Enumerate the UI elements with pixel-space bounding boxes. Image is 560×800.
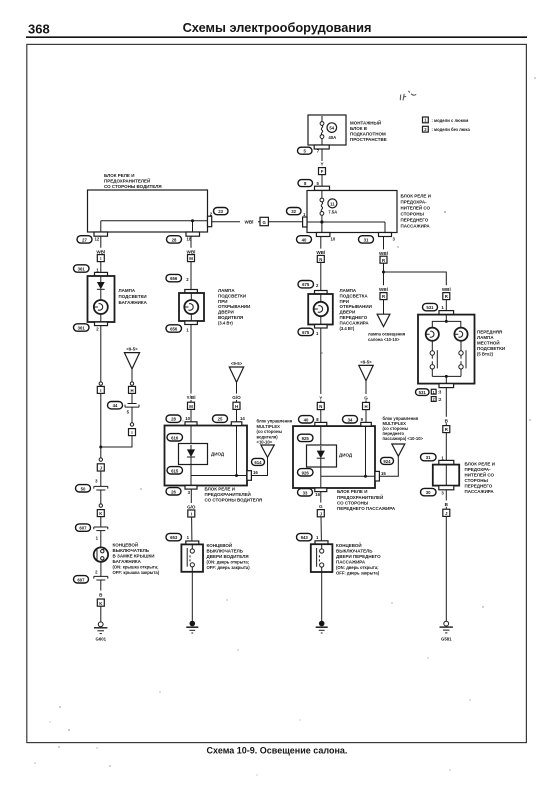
- svg-text:ПРЕДОХРАНИТЕЛЕЙ: ПРЕДОХРАНИТЕЛЕЙ: [104, 176, 150, 183]
- internal wire: [190, 426, 192, 446]
- label: driver relay box (bottom): [205, 486, 263, 502]
- wire: [190, 325, 192, 403]
- svg-text:ПОДСВЕТКИ: ПОДСВЕТКИ: [477, 346, 505, 351]
- label: passenger relay box right: [465, 461, 495, 494]
- wire: [100, 262, 102, 276]
- svg-text:40: 40: [302, 237, 307, 242]
- svg-text:WBl: WBl: [379, 287, 388, 292]
- wire from pin 3: [383, 237, 385, 257]
- svg-text:614: 614: [254, 460, 262, 465]
- svg-text:653: 653: [170, 535, 178, 540]
- wire to multiplex passenger: [379, 456, 398, 476]
- svg-text:ПАССАЖИРА: ПАССАЖИРА: [340, 320, 370, 325]
- svg-text:<9-5>: <9-5>: [126, 347, 138, 352]
- diode D2 box: [307, 445, 337, 467]
- header rule: [26, 36, 527, 38]
- svg-text:ЛАМПА: ЛАМПА: [340, 288, 357, 293]
- wire label G: [361, 394, 371, 401]
- wire: [100, 326, 102, 382]
- internal bus: [101, 220, 208, 222]
- svg-text:ЛАМПА: ЛАМПА: [218, 288, 235, 293]
- connector oval 32: [287, 208, 302, 215]
- junction node: [99, 446, 102, 449]
- connector oval 34 pin 9: [343, 416, 364, 423]
- connector tab pin 7: [314, 145, 329, 154]
- svg-text:925: 925: [302, 436, 310, 441]
- top tab pin 9: [361, 422, 372, 426]
- svg-text:ДИОД: ДИОД: [339, 452, 353, 457]
- lamp bulb trunk: [94, 300, 108, 322]
- diode D2: [317, 446, 325, 467]
- svg-text:НИТЕЛЕЙ СО: НИТЕЛЕЙ СО: [465, 470, 495, 477]
- svg-text:(ON: дверь открыта;: (ON: дверь открыта;: [336, 565, 379, 570]
- svg-text:16: 16: [315, 492, 320, 497]
- wire code box R: [380, 256, 387, 263]
- internal bottom bus: [432, 375, 461, 384]
- svg-text:СТОРОНЫ: СТОРОНЫ: [401, 212, 425, 217]
- svg-text:(3.4 Вт): (3.4 Вт): [218, 320, 233, 325]
- splice o: [99, 458, 102, 461]
- wire: [320, 410, 322, 423]
- svg-text:СТОРОНЫ: СТОРОНЫ: [465, 478, 489, 483]
- svg-text:943: 943: [301, 535, 309, 540]
- diode D1 box: [179, 444, 208, 465]
- trunk lid switch: [94, 547, 108, 561]
- svg-text:WBl: WBl: [245, 220, 254, 225]
- label: passenger courtesy lamp: [340, 288, 372, 331]
- svg-text:368: 368: [28, 22, 50, 37]
- wire code box M: [188, 402, 195, 409]
- svg-text:675: 675: [302, 282, 310, 287]
- label: trunk lamp: [119, 288, 148, 305]
- svg-text:25: 25: [218, 417, 223, 422]
- svg-text:12: 12: [95, 237, 100, 242]
- wire: [100, 471, 102, 486]
- off-page arrow multiplex passenger: [392, 444, 405, 456]
- right tab pin 16: [247, 470, 258, 480]
- svg-text:: модели с люком: : модели с люком: [432, 118, 469, 123]
- wire label WBl: [92, 248, 110, 255]
- svg-text:<9-5>: <9-5>: [231, 361, 243, 366]
- svg-text:10: 10: [185, 416, 190, 421]
- svg-text:Y/Bl: Y/Bl: [187, 395, 196, 400]
- connector oval 23: [214, 208, 229, 215]
- svg-text:КОНЦЕВОЙ: КОНЦЕВОЙ: [336, 541, 362, 548]
- connector oval 28: [167, 236, 182, 243]
- svg-text:ПЕРЕДНЯЯ: ПЕРЕДНЯЯ: [477, 329, 502, 334]
- junction: [382, 271, 385, 274]
- right tab pin 2: [208, 211, 213, 226]
- svg-text:БЛОК РЕЛЕ И: БЛОК РЕЛЕ И: [465, 461, 495, 466]
- top tab pin 8: [315, 422, 327, 426]
- connector oval 8 pin 5: [298, 180, 320, 187]
- junction: [235, 474, 238, 477]
- svg-text:ДВЕРИ: ДВЕРИ: [218, 310, 234, 315]
- svg-text:27: 27: [82, 237, 87, 242]
- svg-text:КОНЦЕВОЙ: КОНЦЕВОЙ: [207, 541, 233, 548]
- label: driver relay box: [104, 173, 162, 189]
- wire label Y: [316, 394, 327, 401]
- splice o: [99, 504, 102, 507]
- svg-text:I: I: [100, 256, 101, 261]
- label: multiplex passenger: [383, 416, 424, 441]
- internal top bus: [432, 315, 461, 328]
- left tab pin 1: [303, 212, 307, 227]
- internal riser from pin 14: [236, 426, 238, 476]
- wire: [365, 410, 367, 423]
- internal riser from pin 9: [365, 426, 367, 476]
- connector oval 607: [74, 576, 89, 583]
- wire: [445, 516, 447, 621]
- svg-text:ДВЕРИ ВОДИТЕЛЯ: ДВЕРИ ВОДИТЕЛЯ: [207, 554, 249, 559]
- label: montage block text: [350, 119, 387, 143]
- wire: [320, 517, 322, 541]
- wire label WBl: [182, 248, 200, 255]
- svg-text:675: 675: [302, 330, 310, 335]
- svg-text:WBl: WBl: [379, 251, 388, 256]
- connector oval 25 pin 14: [213, 415, 246, 422]
- wire code box R: [380, 293, 387, 300]
- internal bus: [307, 221, 385, 223]
- svg-text:615: 615: [171, 468, 179, 473]
- trunk lamp box: [88, 272, 115, 325]
- svg-text:OFF: дверь закрыта): OFF: дверь закрыта): [336, 570, 380, 575]
- wire label WBl: [312, 249, 330, 256]
- svg-text:ВЫКЛЮЧАТЕЛЬ: ВЫКЛЮЧАТЕЛЬ: [207, 548, 244, 553]
- svg-text:14: 14: [240, 416, 245, 421]
- svg-text::2: :2: [438, 397, 442, 402]
- connector oval 653 pin 1: [166, 533, 190, 540]
- svg-text:WBl: WBl: [316, 250, 325, 255]
- wire: [190, 489, 192, 510]
- svg-text:(ON: дверь открыта;: (ON: дверь открыта;: [207, 559, 250, 564]
- connector oval 924: [381, 457, 394, 464]
- wire from pin 10: [320, 237, 322, 256]
- svg-text:31: 31: [426, 455, 431, 460]
- label: front map light: [477, 329, 505, 356]
- inline connector symbol: [94, 486, 108, 503]
- svg-text:607: 607: [79, 526, 87, 531]
- ground G601: [94, 622, 107, 642]
- ground (driver door switch): [186, 621, 198, 633]
- svg-text:10: 10: [331, 237, 336, 242]
- svg-text:НИТЕЛЕЙ СО: НИТЕЛЕЙ СО: [401, 204, 431, 211]
- svg-text:ПРОСТРАНСТВЕ: ПРОСТРАНСТВЕ: [350, 137, 387, 142]
- pencil mark: [400, 91, 416, 101]
- wire code box I: [97, 386, 104, 393]
- svg-text:БЛОК РЕЛЕ И: БЛОК РЕЛЕ И: [337, 489, 367, 494]
- connector oval 28 pin 10: [166, 415, 191, 422]
- branch wire to map light: [384, 272, 447, 286]
- bottom tab pin 3: [185, 486, 197, 495]
- svg-text:926: 926: [302, 470, 310, 475]
- internal wire: [190, 465, 192, 476]
- svg-text:ПРЕДОХРА-: ПРЕДОХРА-: [465, 467, 492, 472]
- wire code box N: [317, 255, 324, 262]
- connector oval 26: [166, 488, 181, 495]
- right tab pin 15: [375, 471, 386, 481]
- svg-text:16: 16: [253, 470, 258, 475]
- svg-text:G: G: [319, 504, 323, 509]
- svg-text:: модели без люка: : модели без люка: [432, 127, 471, 132]
- label: passenger relay box (bottom): [337, 489, 396, 511]
- svg-text:ОТКРЫВАНИИ: ОТКРЫВАНИИ: [340, 304, 372, 309]
- wire code box I: [97, 255, 104, 262]
- diode relay box body: [165, 426, 248, 486]
- svg-text:ДИОД: ДИОД: [211, 451, 225, 456]
- svg-text:361: 361: [78, 267, 86, 272]
- fuse 54 40A: [320, 116, 337, 145]
- label: trunk lid switch: [113, 540, 160, 575]
- connector oval 616: [167, 434, 183, 441]
- label: driver door switch: [207, 541, 251, 570]
- wire: [100, 606, 102, 622]
- svg-text:WBl: WBl: [187, 249, 196, 254]
- bottom tab pin 16: [315, 488, 327, 497]
- svg-text:33: 33: [303, 490, 308, 495]
- connector oval 33: [298, 489, 313, 496]
- svg-text:28: 28: [172, 237, 177, 242]
- connector oval 615: [167, 467, 183, 474]
- svg-text:531: 531: [419, 390, 427, 395]
- wire: [191, 517, 193, 541]
- connector oval 361 pin 1: [74, 265, 100, 273]
- svg-text:F: F: [321, 169, 324, 174]
- connector oval 925: [298, 434, 314, 441]
- svg-text:Схемы электрооборудования: Схемы электрооборудования: [183, 20, 372, 35]
- svg-text:В ЗАМКЕ КРЫШКИ: В ЗАМКЕ КРЫШКИ: [113, 553, 155, 558]
- svg-text:G581: G581: [441, 637, 452, 642]
- svg-text:салона <10-10>: салона <10-10>: [368, 337, 400, 342]
- wire label WBl: [375, 249, 393, 256]
- svg-text:23: 23: [218, 209, 223, 214]
- junction: [364, 475, 367, 478]
- connector oval 50: [76, 485, 91, 492]
- wire code box K: [97, 510, 104, 517]
- svg-text:БЛОК РЕЛЕ И: БЛОК РЕЛЕ И: [205, 486, 235, 491]
- scan speckles: [34, 77, 535, 775]
- connector oval 675 pin 1: [298, 328, 319, 336]
- inline connector symbol: [94, 576, 108, 590]
- wire: [190, 409, 192, 421]
- svg-text:H: H: [130, 388, 133, 393]
- schematic frame: [27, 44, 527, 742]
- svg-text:30: 30: [426, 490, 431, 495]
- svg-text:G: G: [364, 396, 368, 401]
- svg-text:ПРЕДОХРА-: ПРЕДОХРА-: [401, 200, 428, 205]
- svg-text:40: 40: [304, 417, 309, 422]
- svg-text:КОНЦЕВОЙ: КОНЦЕВОЙ: [113, 540, 139, 547]
- wire: [383, 300, 385, 315]
- label: interior lamp: [368, 332, 406, 343]
- svg-text:656: 656: [170, 327, 178, 332]
- internal stub to pin 3: [190, 476, 192, 486]
- svg-text:50: 50: [81, 486, 86, 491]
- svg-text:924: 924: [383, 459, 391, 464]
- wire: [445, 433, 447, 461]
- svg-text:616: 616: [171, 435, 179, 440]
- svg-text:(3.4 Вт): (3.4 Вт): [340, 326, 355, 331]
- map lamp bulb left: [426, 328, 439, 341]
- wire label G/O: [228, 394, 245, 401]
- wire code box H: [363, 402, 370, 409]
- svg-text:N: N: [319, 257, 322, 262]
- svg-text:34: 34: [348, 417, 353, 422]
- svg-text:ПОДКАПОТНОМ: ПОДКАПОТНОМ: [350, 132, 386, 137]
- label: driver courtesy lamp: [218, 288, 250, 325]
- connector oval 531 pin 1: [423, 303, 445, 310]
- svg-text:СО СТОРОНЫ: СО СТОРОНЫ: [337, 500, 369, 505]
- svg-text:G601: G601: [96, 637, 107, 642]
- svg-text:ВЫКЛЮЧАТЕЛЬ: ВЫКЛЮЧАТЕЛЬ: [113, 548, 150, 553]
- svg-text:ВЫКЛЮЧАТЕЛЬ: ВЫКЛЮЧАТЕЛЬ: [336, 548, 373, 553]
- svg-text:28: 28: [171, 417, 176, 422]
- svg-text:<9-5>: <9-5>: [360, 360, 372, 365]
- wire label WBl: [438, 285, 456, 292]
- connector oval 31 pin 1: [421, 453, 445, 460]
- svg-text:БАГАЖНИКА: БАГАЖНИКА: [119, 300, 148, 305]
- wire: [131, 369, 133, 382]
- bottom tab pin 18: [186, 232, 200, 242]
- off-page arrow: [124, 353, 139, 369]
- svg-text:Схема 10-9. Освещение салона.: Схема 10-9. Освещение салона.: [207, 746, 348, 756]
- label: passenger relay box: [401, 194, 431, 229]
- svg-text:N: N: [319, 404, 322, 409]
- svg-text:26: 26: [171, 489, 176, 494]
- wire label WBl: [240, 218, 258, 225]
- internal wire: [320, 426, 322, 446]
- diode inside trunk lamp: [97, 276, 105, 300]
- svg-text:МОНТАЖНЫЙ: МОНТАЖНЫЙ: [350, 119, 381, 126]
- wire: [445, 300, 447, 311]
- svg-text:СО СТОРОНЫ ВОДИТЕЛЯ: СО СТОРОНЫ ВОДИТЕЛЯ: [205, 498, 263, 503]
- wire label WBl: [375, 285, 393, 292]
- connector oval 40: [297, 236, 312, 243]
- wire label Y/Bl: [183, 394, 201, 401]
- svg-text:ПАССАЖИРА: ПАССАЖИРА: [336, 559, 366, 564]
- internal wire to pin10: [321, 215, 323, 232]
- lamp bulb passenger door: [314, 294, 328, 325]
- front map light box: [418, 311, 475, 388]
- svg-text:7.5A: 7.5A: [328, 209, 337, 214]
- wire: [100, 447, 102, 458]
- internal bus: [191, 475, 247, 477]
- svg-text:2: 2: [433, 398, 435, 402]
- connector oval 31: [359, 236, 374, 243]
- legend: [423, 117, 471, 132]
- wire: [100, 393, 102, 447]
- internal riser pin 18: [192, 221, 194, 232]
- svg-text:ЛАМПА: ЛАМПА: [477, 335, 494, 340]
- wire WBl to passenger box: [212, 221, 303, 223]
- connector oval 27: [77, 236, 92, 243]
- relay box body: [307, 191, 397, 233]
- wire label G: [316, 503, 326, 510]
- svg-text:ПЕРЕДНЕГО: ПЕРЕДНЕГО: [340, 315, 368, 320]
- wire: [190, 262, 192, 293]
- connector oval 44: [108, 402, 123, 409]
- off-page arrow multiplex driver: [261, 445, 274, 457]
- wire code box K: [97, 599, 104, 606]
- svg-text:МЕСТНОЙ: МЕСТНОЙ: [477, 338, 500, 345]
- connector oval 531 bottom: [416, 389, 430, 396]
- svg-text:Y: Y: [320, 161, 323, 166]
- svg-text:ВОДИТЕЛЯ: ВОДИТЕЛЯ: [218, 315, 243, 320]
- wire: [320, 492, 322, 510]
- svg-text:44: 44: [113, 403, 118, 408]
- connector oval 675 pin 2: [298, 281, 319, 289]
- wire label B: [443, 417, 450, 424]
- svg-text:БЛОК В: БЛОК В: [350, 126, 368, 131]
- svg-text:(5 Втх2): (5 Втх2): [477, 351, 494, 356]
- map light switch left: [430, 341, 437, 377]
- svg-text:ПРИ: ПРИ: [218, 299, 227, 304]
- driver courtesy lamp box: [179, 290, 204, 325]
- map lamp bulb right: [454, 328, 467, 341]
- svg-text:M: M: [189, 404, 193, 409]
- wire to multiplex: [251, 457, 267, 475]
- legend pins 531: [431, 389, 442, 402]
- svg-text:ПАССАЖИРА: ПАССАЖИРА: [465, 489, 495, 494]
- svg-text:H: H: [235, 404, 238, 409]
- wire code box H: [233, 402, 240, 409]
- relay box body: [88, 190, 208, 232]
- ground G581: [440, 621, 453, 641]
- svg-text:Y: Y: [319, 396, 322, 401]
- wire code box J: [97, 464, 104, 471]
- svg-text:ПРИ: ПРИ: [340, 299, 349, 304]
- driver door switch: [181, 541, 203, 572]
- wire code box R: [443, 293, 450, 300]
- junction: [320, 220, 323, 223]
- bottom tab pin 10: [316, 233, 335, 242]
- svg-text:531: 531: [426, 305, 434, 310]
- wire code box M: [188, 255, 195, 262]
- wire: [236, 409, 238, 421]
- wire: [320, 328, 322, 402]
- svg-text:(ON: крышка открыта;: (ON: крышка открыта;: [113, 564, 159, 569]
- wire Y down from fuse box: [321, 149, 323, 161]
- svg-text:54: 54: [329, 126, 334, 131]
- svg-text:656: 656: [170, 276, 178, 281]
- svg-text:361: 361: [78, 326, 86, 331]
- top tab pin 10: [185, 422, 197, 426]
- wire: [321, 572, 323, 621]
- wire: [100, 562, 102, 577]
- inline connector symbol: [125, 404, 139, 423]
- connector oval 30 pin 3: [421, 488, 445, 495]
- svg-text:M: M: [189, 256, 193, 261]
- wire: [191, 572, 193, 621]
- wire code box J: [443, 509, 450, 516]
- wire: [383, 263, 385, 286]
- wire code box G: [260, 217, 268, 225]
- svg-text:I: I: [131, 430, 132, 435]
- connector oval 656 pin 2: [166, 274, 189, 282]
- svg-text:ПЕРЕДНЕГО ПАССАЖИРА: ПЕРЕДНЕГО ПАССАЖИРА: [337, 506, 396, 511]
- connector oval 614: [252, 458, 265, 465]
- svg-text:ДВЕРИ: ДВЕРИ: [340, 310, 356, 315]
- internal wire: [320, 467, 322, 476]
- wire: [131, 393, 133, 403]
- splice o: [130, 423, 133, 426]
- svg-text:ЛАМПА: ЛАМПА: [119, 288, 136, 293]
- svg-text:40A: 40A: [328, 135, 336, 140]
- svg-text:I: I: [100, 388, 101, 393]
- svg-text:H: H: [364, 404, 367, 409]
- wire: [236, 382, 238, 402]
- wire to junction: [101, 436, 132, 447]
